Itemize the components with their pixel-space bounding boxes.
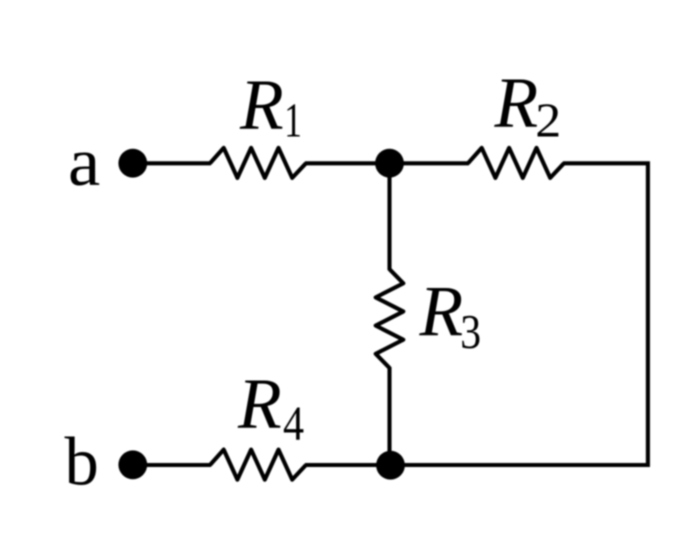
svg-text:2: 2 (535, 93, 561, 147)
svg-text:R: R (239, 65, 284, 144)
svg-text:1: 1 (284, 94, 302, 148)
svg-text:3: 3 (460, 304, 481, 359)
svg-text:R: R (419, 272, 464, 351)
svg-text:R: R (494, 63, 539, 142)
svg-text:4: 4 (283, 396, 304, 451)
svg-text:R: R (237, 364, 282, 443)
svg-text:a: a (68, 125, 100, 201)
svg-text:b: b (65, 424, 99, 500)
